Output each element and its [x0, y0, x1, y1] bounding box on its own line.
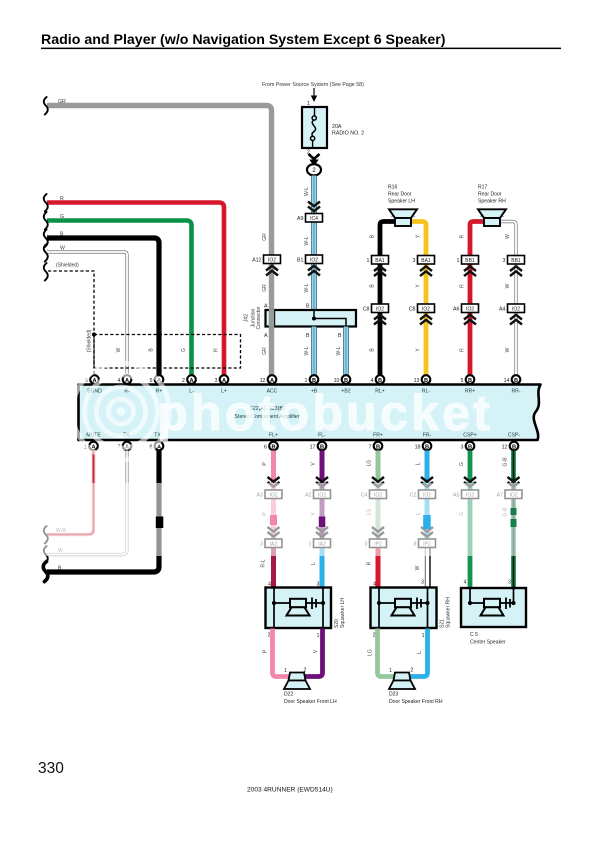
svg-text:1: 1 — [422, 633, 425, 639]
svg-text:A6: A6 — [453, 307, 460, 313]
connector A9 IC4 — [306, 214, 323, 223]
svg-text:RADIO NO. 2: RADIO NO. 2 — [332, 131, 364, 137]
svg-text:3: 3 — [503, 258, 506, 264]
svg-text:BB1: BB1 — [465, 258, 475, 264]
amp pin 18(B) bottom — [423, 442, 432, 451]
wire G CSP+ down to center speaker — [468, 451, 473, 590]
svg-text:Squawker RH: Squawker RH — [446, 597, 452, 628]
svg-text:A: A — [264, 333, 268, 339]
svg-text:5: 5 — [150, 378, 153, 384]
svg-text:A: A — [270, 378, 274, 384]
wire LG from S21 to D23 — [378, 629, 396, 677]
svg-text:IO2: IO2 — [422, 307, 430, 313]
svg-text:R: R — [367, 561, 373, 565]
svg-text:GR: GR — [262, 284, 268, 292]
watermark letter fragment on L wire — [423, 515, 431, 529]
svg-text:IO2: IO2 — [512, 307, 520, 313]
connector 8 IP2 (FR-) — [419, 539, 436, 548]
svg-text:A4: A4 — [499, 307, 506, 313]
connector 3 BB1 (RR-) — [508, 256, 525, 265]
svg-text:W: W — [505, 234, 511, 239]
svg-text:Speaker RH: Speaker RH — [478, 199, 506, 205]
wire G-B CSP- down to center speaker — [511, 451, 516, 590]
wire L FL- lower to squawker — [320, 548, 325, 590]
svg-text:B: B — [338, 333, 342, 339]
svg-text:1: 1 — [389, 668, 392, 674]
speaker R17 symbol — [478, 209, 506, 218]
svg-text:Connector: Connector — [256, 306, 262, 329]
svg-text:C8: C8 — [409, 307, 416, 313]
wire GR horizontal from left edge to ACC column — [47, 106, 272, 376]
svg-text:A: A — [125, 378, 129, 384]
svg-text:330: 330 — [38, 760, 64, 777]
wire R-L FL+ lower to squawker — [271, 548, 276, 590]
svg-text:Speaker LH: Speaker LH — [388, 199, 415, 205]
D23 speaker symbol — [394, 673, 411, 681]
amplifier S22/S23 box — [79, 385, 541, 441]
svg-text:L: L — [311, 562, 317, 565]
fuse element symbol — [314, 107, 316, 116]
svg-text:2: 2 — [413, 213, 416, 219]
wire W FR- lower to squawker (thin pair) — [424, 548, 426, 590]
svg-text:3: 3 — [508, 580, 511, 586]
svg-text:IO2: IO2 — [466, 307, 474, 313]
svg-text:B: B — [425, 444, 429, 450]
svg-text:D23: D23 — [389, 692, 399, 698]
connector 3 IA2 (FL+) — [265, 539, 282, 548]
amp pin 6(A) top — [90, 375, 99, 384]
svg-text:(Shielded): (Shielded) — [56, 263, 79, 269]
chevron above connector A9 — [308, 202, 320, 212]
svg-text:W-L: W-L — [304, 346, 310, 355]
svg-text:GR: GR — [58, 99, 66, 105]
connector A4 IO2 (RR-) — [508, 304, 525, 313]
watermark letter fragment on P wire — [270, 515, 277, 525]
wire Y from R16 pin2 to amp RL- — [410, 222, 426, 376]
connector 1 BB1 (RR+) — [462, 256, 479, 265]
amp pin 4(A) top — [123, 375, 132, 384]
svg-text:photobucket: photobucket — [157, 384, 493, 441]
svg-text:G: G — [459, 462, 465, 466]
connector 1 IA2 (FL-) — [314, 539, 331, 548]
shield junction dot — [92, 332, 96, 336]
svg-text:3: 3 — [413, 258, 416, 264]
amp pin 5(B) top — [466, 375, 475, 384]
center speaker C-5 box — [461, 588, 526, 627]
svg-text:W: W — [505, 283, 511, 288]
svg-text:1: 1 — [457, 258, 460, 264]
svg-text:BB1: BB1 — [511, 258, 521, 264]
svg-text:B: B — [271, 444, 275, 450]
svg-text:B: B — [376, 444, 380, 450]
svg-text:18: 18 — [415, 445, 421, 451]
amp pin 12(A) top — [268, 375, 277, 384]
wire B black from left edge to R+ column — [47, 238, 159, 375]
connector 3 IP2 (FR+) — [370, 539, 387, 548]
svg-text:D22: D22 — [284, 692, 294, 698]
svg-text:Door Speaker Front LH: Door Speaker Front LH — [284, 699, 337, 705]
svg-text:BA1: BA1 — [375, 258, 385, 264]
svg-text:W: W — [415, 565, 421, 570]
svg-text:R: R — [460, 284, 466, 288]
svg-text:Rear Door: Rear Door — [478, 192, 502, 198]
svg-text:4: 4 — [118, 378, 121, 384]
S21 capacitor — [416, 598, 418, 610]
wire G green from left edge to L- column — [47, 221, 192, 376]
svg-text:B: B — [468, 444, 472, 450]
wire L from S21 to D23 — [410, 629, 428, 677]
feed arrow into fuse — [313, 88, 315, 97]
svg-text:From Power Source System (See: From Power Source System (See Page 58) — [262, 82, 364, 88]
chevron below connector B1 — [308, 266, 320, 276]
svg-text:W: W — [505, 347, 511, 352]
S20 capacitor — [311, 598, 313, 610]
svg-text:B: B — [344, 378, 348, 384]
wire V from S20 to D22 — [305, 629, 323, 677]
squiggle R wire — [44, 194, 48, 212]
svg-text:B1: B1 — [297, 258, 304, 264]
C-5 speaker symbol — [484, 599, 500, 608]
wire GR over junction box — [269, 309, 274, 328]
amp pin 10(B) top — [342, 375, 351, 384]
svg-text:14: 14 — [504, 378, 510, 384]
svg-text:Squawker LH: Squawker LH — [340, 598, 346, 628]
amp pin 7(B) bottom — [374, 442, 383, 451]
connector B1 IO2 — [306, 255, 323, 264]
svg-text:R: R — [214, 348, 220, 352]
svg-text:W-L: W-L — [336, 346, 342, 355]
svg-text:20A: 20A — [332, 124, 342, 130]
wire B from R16 pin1 to amp RL+ — [380, 222, 396, 376]
svg-text:IC4: IC4 — [310, 216, 318, 222]
svg-text:17: 17 — [310, 445, 316, 451]
squawker S20 box — [266, 588, 332, 629]
svg-text:R16: R16 — [388, 185, 398, 191]
svg-text:B: B — [378, 378, 382, 384]
connector C2 IO2 (FR-) — [419, 490, 436, 499]
wire V FL- upper — [320, 451, 325, 540]
wire W white (double line) from left edge to R- column — [47, 252, 127, 375]
svg-text:Door Speaker Front RH: Door Speaker Front RH — [389, 699, 443, 705]
amp pin 3(A) top — [220, 375, 229, 384]
svg-text:B: B — [514, 378, 518, 384]
wire W from R17 pin2 to amp RR- (double line) — [499, 222, 516, 376]
squiggle B wire — [44, 230, 48, 248]
svg-text:3: 3 — [461, 445, 464, 451]
wire B from TX+ to left edge — [47, 451, 159, 573]
amp pin 6(B) bottom — [269, 442, 278, 451]
amp pin 14(B) top — [512, 375, 521, 384]
photobucket watermark rings — [73, 363, 170, 460]
svg-text:A: A — [264, 304, 268, 310]
svg-text:W-L: W-L — [304, 187, 310, 196]
svg-text:IO2: IO2 — [268, 258, 276, 264]
svg-text:Rear Door: Rear Door — [388, 192, 412, 198]
chevron into oval connector — [309, 154, 320, 159]
svg-text:R: R — [460, 234, 466, 238]
connector A2 IO2 (FL-) — [314, 490, 331, 499]
svg-text:1: 1 — [480, 213, 483, 219]
oval connector 2 — [307, 164, 321, 175]
svg-text:W: W — [60, 246, 65, 252]
svg-text:B: B — [312, 378, 316, 384]
svg-text:C 5: C 5 — [470, 632, 478, 638]
amp pin 4(B) top — [376, 375, 385, 384]
dashed shield box around W B G R wires — [94, 335, 241, 369]
amp pin 5(A) top — [155, 375, 164, 384]
wire R from R17 pin1 to amp RR+ — [470, 222, 485, 376]
squiggle W wire — [44, 244, 48, 262]
svg-text:W: W — [116, 347, 122, 352]
svg-text:1: 1 — [317, 633, 320, 639]
svg-text:R17: R17 — [478, 185, 488, 191]
connector A12 IO2 — [264, 255, 281, 264]
svg-text:1: 1 — [391, 213, 394, 219]
svg-text:W-L: W-L — [304, 236, 310, 245]
connector A3 IO2 (FL+) — [265, 490, 282, 499]
svg-text:2: 2 — [411, 668, 414, 674]
svg-text:1: 1 — [284, 668, 287, 674]
amp pin 1(A) bottom — [89, 442, 98, 451]
squiggle W-R — [44, 526, 48, 544]
wire R red from left edge to L+ column — [47, 203, 224, 376]
svg-text:Center Speaker: Center Speaker — [470, 640, 506, 646]
connector 3 BA1 (RL-) — [418, 256, 435, 265]
lower watermark wash band — [0, 483, 595, 556]
svg-text:B: B — [60, 232, 64, 238]
wire W from TX- to left edge (double line) — [47, 451, 127, 555]
wire W-L from fuse down to junction connector — [311, 176, 316, 311]
amp pin 17(B) bottom — [318, 442, 327, 451]
svg-text:B: B — [320, 444, 324, 450]
svg-text:G-B: G-B — [503, 457, 509, 467]
svg-text:L: L — [416, 462, 422, 465]
S20 speaker symbol — [290, 599, 306, 608]
amp pin 13(B) top — [422, 375, 431, 384]
connector C4 IO2 (FR+) — [370, 490, 387, 499]
svg-text:BA1: BA1 — [421, 258, 431, 264]
svg-text:B: B — [468, 378, 472, 384]
svg-text:B: B — [424, 378, 428, 384]
svg-text:G: G — [60, 214, 64, 220]
squiggle shield wire — [44, 263, 48, 281]
svg-text:A: A — [222, 378, 226, 384]
svg-text:GR: GR — [262, 233, 268, 241]
svg-text:LG: LG — [367, 460, 373, 467]
watermark letter fragment on G-B wire — [511, 508, 517, 515]
connector C8 IO2 (RL-) — [418, 304, 435, 313]
C-5 capacitor — [505, 598, 507, 610]
amp pin 3(B) bottom — [466, 442, 475, 451]
svg-text:2: 2 — [502, 213, 505, 219]
shield drain dashed wire — [48, 271, 94, 375]
amp pin 7(A) bottom — [123, 442, 132, 451]
svg-text:B: B — [306, 333, 310, 339]
svg-text:2003 4RUNNER (EWD514U): 2003 4RUNNER (EWD514U) — [247, 787, 333, 794]
svg-text:B: B — [306, 304, 310, 310]
svg-text:4: 4 — [464, 580, 467, 586]
svg-text:GR: GR — [262, 347, 268, 355]
svg-text:C8: C8 — [363, 307, 370, 313]
svg-text:12: 12 — [502, 445, 508, 451]
squiggle G wire — [44, 212, 48, 230]
svg-text:J42: J42 — [244, 314, 250, 322]
fuse 20A RADIO NO.2 box — [302, 107, 327, 148]
speaker R16 symbol — [389, 209, 417, 218]
connector 1 BA1 (RL+) — [372, 256, 389, 265]
svg-text:R: R — [60, 196, 64, 202]
svg-text:B: B — [512, 444, 516, 450]
amp pin 1(B) top — [310, 375, 319, 384]
chevrons above IO2 row — [268, 477, 280, 487]
junction internal wire and branch — [314, 310, 346, 327]
junction connector J42 box — [266, 310, 357, 327]
svg-text:IO2: IO2 — [310, 258, 318, 264]
svg-text:A9: A9 — [297, 216, 304, 222]
amp pin 12(B) bottom — [510, 442, 519, 451]
title underline — [41, 48, 561, 50]
svg-text:Radio and Player (w/o Navigati: Radio and Player (w/o Navigation System … — [41, 32, 446, 48]
svg-text:(Shielded): (Shielded) — [87, 329, 93, 352]
svg-text:A: A — [189, 378, 193, 384]
svg-text:LG: LG — [368, 649, 374, 656]
svg-text:7: 7 — [369, 445, 372, 451]
svg-text:A12: A12 — [252, 258, 261, 264]
svg-text:R: R — [460, 348, 466, 352]
connector A5 IO2 (CSP+) — [462, 490, 479, 499]
svg-text:CSP-: CSP- — [508, 433, 520, 439]
svg-text:6: 6 — [264, 445, 267, 451]
S21 speaker symbol — [395, 599, 411, 608]
svg-text:G: G — [181, 348, 187, 352]
svg-text:3: 3 — [421, 580, 424, 586]
wire P FL+ upper — [271, 451, 276, 540]
wire R FR+ lower to squawker — [376, 548, 381, 590]
chevron below connector A12 — [266, 266, 278, 276]
svg-text:W-L: W-L — [304, 283, 310, 292]
chevrons above IA2/IP2 row — [268, 527, 280, 537]
svg-text:IO2: IO2 — [376, 307, 384, 313]
svg-text:L: L — [417, 651, 423, 654]
amp pin 8(A) bottom — [155, 442, 164, 451]
wire W-R from MUTE to left edge — [47, 451, 94, 535]
connector C8 IO2 (RL+) — [372, 304, 389, 313]
squawker S21 box — [371, 588, 437, 629]
wire LG FR+ upper — [376, 451, 381, 540]
squiggle W — [44, 546, 48, 564]
watermark letter fragment on B wire — [156, 517, 164, 529]
svg-text:1: 1 — [367, 258, 370, 264]
wire W-L junction to +B2 — [343, 327, 348, 376]
D22 speaker symbol — [289, 673, 306, 681]
wire W-L junction to +B — [311, 327, 316, 376]
wire L FR- upper — [425, 451, 430, 540]
connector A6 IO2 (RR+) — [462, 304, 479, 313]
squiggle B heavy — [43, 562, 48, 582]
squiggle GR wire — [44, 97, 48, 115]
watermark letter fragment on V wire — [319, 517, 326, 528]
svg-text:RR-: RR- — [511, 389, 520, 395]
amp pin 2(A) top — [187, 375, 196, 384]
connector A7 IO2 (CSP-) — [505, 490, 522, 499]
svg-text:R-L: R-L — [261, 559, 267, 567]
wire P from S20 to D22 — [273, 629, 291, 677]
